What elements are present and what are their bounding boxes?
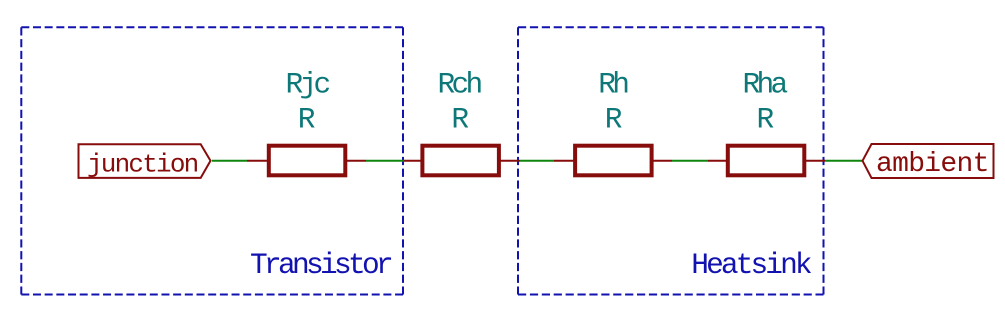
- resistor Rjc body: [269, 146, 346, 176]
- svg-text:Rch: Rch: [437, 67, 481, 101]
- resistor Rha body: [728, 146, 805, 176]
- svg-text:Rha: Rha: [742, 67, 787, 101]
- svg-text:Transistor: Transistor: [250, 248, 392, 282]
- resistor Rh body: [575, 146, 652, 176]
- wire R1->R2: [366, 160, 404, 162]
- resistor Rha right pin: [805, 160, 825, 162]
- resistor Rch left pin: [404, 160, 422, 162]
- resistor Rjc left pin: [247, 160, 268, 162]
- port ambient: [863, 144, 994, 178]
- svg-text:Rjc: Rjc: [285, 67, 329, 101]
- resistor Rch body: [422, 146, 499, 176]
- wire junction->R1: [212, 160, 247, 162]
- port junction: [79, 144, 211, 178]
- resistor Rh left pin: [554, 160, 574, 162]
- svg-text:ambient: ambient: [876, 149, 989, 180]
- svg-text:Heatsink: Heatsink: [691, 248, 812, 282]
- Transistor box (dashed): [21, 27, 403, 294]
- resistor Rjc right pin: [346, 160, 366, 162]
- wire R2->R3: [520, 160, 554, 162]
- wire R3->R4: [672, 160, 708, 162]
- resistor Rha left pin: [708, 160, 727, 162]
- Heatsink box (dashed): [518, 27, 824, 294]
- svg-text:junction: junction: [87, 149, 198, 179]
- svg-text:Rh: Rh: [598, 67, 628, 101]
- resistor Rch right pin: [500, 160, 520, 162]
- wire R4->ambient: [825, 160, 863, 162]
- resistor Rh right pin: [652, 160, 672, 162]
